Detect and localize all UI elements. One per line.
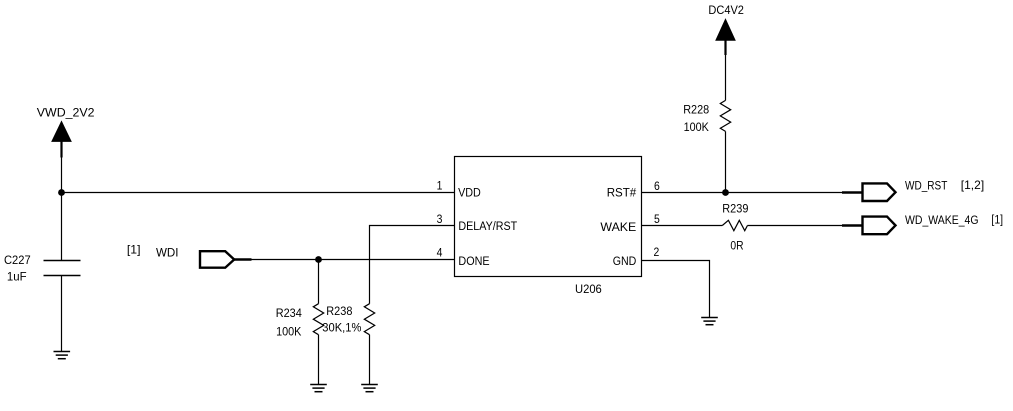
resistor R239 [722, 220, 747, 230]
label VWD_2V2 [37, 106, 95, 120]
pin label WAKE [600, 220, 636, 234]
pin number 2 [654, 247, 660, 260]
svg-text:C227: C227 [4, 255, 31, 267]
svg-text:100K: 100K [276, 326, 302, 339]
label R228 100K [683, 104, 709, 134]
resistor R228 [720, 100, 730, 131]
pin label RST# [607, 186, 637, 199]
ground (below R234) [310, 385, 327, 392]
ground (below C227) [54, 352, 71, 359]
svg-text:VDD: VDD [458, 187, 481, 200]
wire R228 to RST# node [725, 131, 727, 192]
port WDI [200, 251, 252, 268]
wire VDD net (node to pin 1) [62, 192, 455, 194]
label R239 0R [722, 203, 748, 252]
svg-text:WAKE: WAKE [600, 220, 636, 234]
junction node RST#/R228 [722, 189, 729, 196]
svg-text:[1]: [1] [991, 214, 1003, 227]
wire R238 to ground [369, 335, 371, 385]
svg-text:R228: R228 [683, 104, 709, 117]
junction node WDI/R234 [315, 256, 322, 263]
wire DELAY/RST pin 3 to R238 [370, 226, 455, 304]
label [1] WDI [127, 243, 179, 260]
wire WAKE pin 5 [642, 225, 843, 227]
pin number 5 [654, 213, 660, 226]
svg-text:WD_WAKE_4G: WD_WAKE_4G [905, 214, 979, 227]
svg-text:4: 4 [437, 247, 443, 260]
svg-text:WD_RST: WD_RST [905, 180, 948, 193]
label R238 30K,1% [322, 305, 361, 334]
label WD_RST [1,2] [905, 178, 984, 193]
svg-text:0R: 0R [730, 240, 743, 253]
pin label DONE [458, 255, 490, 268]
svg-text:[1]: [1] [127, 243, 141, 257]
pin label DELAY/RST [458, 221, 517, 234]
svg-text:DC4V2: DC4V2 [708, 4, 744, 16]
label R234 100K [276, 308, 303, 339]
pin label GND [613, 255, 637, 268]
pin label VDD [458, 187, 481, 200]
ground (below R238) [361, 385, 378, 392]
svg-text:VWD_2V2: VWD_2V2 [37, 106, 95, 120]
svg-text:R234: R234 [276, 308, 303, 321]
capacitor C227 [44, 261, 81, 276]
wire WDI to pin 4 DONE [251, 259, 455, 261]
svg-text:WDI: WDI [156, 247, 178, 260]
resistor R234 [313, 260, 323, 335]
wire RST# pin 6 [642, 192, 843, 194]
label U206 [575, 282, 602, 295]
IC U206 box [455, 157, 642, 277]
ground (pin 2 GND) [701, 318, 718, 325]
svg-text:5: 5 [654, 213, 660, 226]
svg-text:U206: U206 [575, 282, 602, 295]
wire GND pin 2 [642, 261, 710, 318]
wire VWD_2V2 node vertical [61, 157, 63, 261]
svg-text:1: 1 [437, 180, 443, 193]
svg-text:100K: 100K [684, 121, 710, 134]
svg-text:DONE: DONE [458, 255, 490, 268]
pin number 3 [437, 213, 443, 226]
port WD_WAKE_4G [842, 217, 896, 235]
svg-text:R239: R239 [722, 203, 748, 216]
port WD_RST [842, 183, 896, 201]
resistor R238 [364, 304, 374, 335]
svg-text:GND: GND [613, 255, 637, 268]
label C227 1uF [4, 255, 31, 284]
svg-text:1uF: 1uF [7, 270, 27, 283]
label DC4V2 [708, 4, 744, 16]
label WD_WAKE_4G [1] [905, 214, 1003, 227]
pin number 6 [654, 180, 660, 193]
svg-text:R238: R238 [326, 305, 352, 318]
svg-text:3: 3 [437, 213, 443, 226]
wire DC4V2 to R228 [725, 54, 727, 100]
wire R234 to ground [318, 335, 320, 385]
svg-text:DELAY/RST: DELAY/RST [458, 221, 517, 234]
power symbol VWD_2V2 [52, 122, 71, 158]
svg-text:RST#: RST# [607, 186, 637, 199]
svg-text:[1,2]: [1,2] [961, 178, 984, 192]
power symbol DC4V2 [716, 20, 735, 55]
pin number 4 [437, 247, 443, 260]
svg-text:2: 2 [654, 247, 660, 260]
junction node VWD_2V2 [58, 189, 65, 196]
pin number 1 [437, 180, 443, 193]
svg-text:30K,1%: 30K,1% [322, 322, 361, 334]
wire C227 to ground [61, 276, 63, 352]
svg-text:6: 6 [654, 180, 660, 193]
